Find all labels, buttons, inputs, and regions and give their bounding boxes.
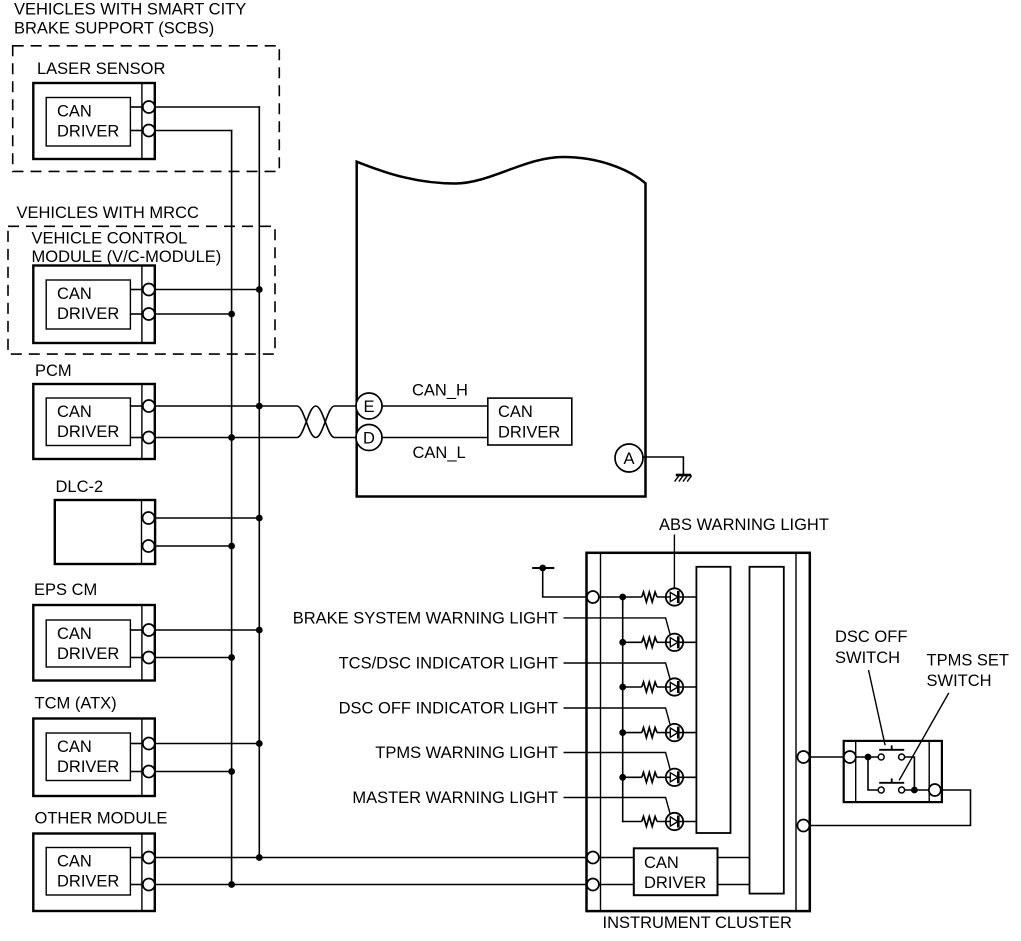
label DLC-2 [56, 478, 104, 496]
junction dot on CAN_L bus at y=884.5 [228, 881, 235, 888]
wire cluster pin to CAN driver (CAN_H) [599, 857, 634, 859]
svg-text:CAN: CAN [57, 625, 92, 643]
label vehicle control module [32, 230, 222, 267]
label EPS CM [34, 581, 97, 599]
svg-text:A: A [623, 450, 634, 468]
PCM pin CAN_L [143, 432, 155, 444]
svg-text:DRIVER: DRIVER [57, 305, 119, 323]
svg-text:DRIVER: DRIVER [57, 873, 119, 891]
wire lamp branch TPMS warning light [623, 776, 642, 778]
wire cluster CAN driver to lamp module (CAN_L) [718, 884, 750, 886]
wire TCM CAN_H to bus [155, 743, 259, 745]
svg-text:ABS WARNING LIGHT: ABS WARNING LIGHT [659, 516, 829, 534]
laser sensor pin CAN_H [143, 101, 155, 113]
svg-text:BRAKE SUPPORT (SCBS): BRAKE SUPPORT (SCBS) [14, 20, 214, 38]
wire other module CAN_L to instrument cluster [155, 884, 587, 886]
wire laser sensor CAN_L to bus [155, 130, 233, 132]
dashed box VEHICLES WITH MRCC [8, 226, 275, 354]
CAN_L bus (vertical) [231, 130, 233, 885]
svg-text:TPMS WARNING LIGHT: TPMS WARNING LIGHT [375, 744, 558, 762]
svg-text:CAN: CAN [57, 853, 92, 871]
cluster pin switch return [797, 820, 809, 832]
junction dot lamp branch TCS/DSC indicator light [619, 684, 626, 691]
TPMS SET switch contacts [878, 778, 904, 793]
switch pin input [844, 751, 856, 763]
svg-text:LASER SENSOR: LASER SENSOR [37, 60, 165, 78]
junction dot on CAN_L bus at y=437.5 [228, 434, 235, 441]
svg-text:VEHICLE CONTROL: VEHICLE CONTROL [32, 230, 188, 248]
junction dot lamp branch brake system warning light [619, 639, 626, 646]
svg-text:SWITCH: SWITCH [835, 649, 900, 667]
cluster pin power [587, 591, 599, 603]
DLC-2 pin CAN_H [143, 512, 155, 524]
label laser sensor [37, 60, 165, 78]
svg-text:PCM: PCM [35, 362, 72, 380]
TCM (ATX) CAN driver [46, 733, 143, 781]
label VEHICLES WITH SMART CITY BRAKE SUPPORT (SCBS) [14, 1, 246, 38]
junction dot on CAN_H bus at y=857.5 [256, 854, 263, 861]
connector pin E [356, 393, 382, 419]
vehicle control module pin CAN_H [143, 284, 155, 296]
svg-text:SWITCH: SWITCH [927, 672, 992, 690]
wire junction to TPMS switch [868, 757, 878, 790]
TCM (ATX) pin CAN_H [143, 738, 155, 750]
connector pin D [356, 425, 382, 451]
svg-text:DLC-2: DLC-2 [56, 478, 104, 496]
wire lamp branch DSC OFF indicator light [623, 732, 642, 734]
laser sensor module box [33, 83, 155, 159]
LED TCS/DSC indicator light [657, 678, 696, 695]
wire DLC-2 CAN_H to bus [155, 517, 259, 519]
PCM CAN driver [46, 398, 143, 446]
junction dot lamp branch ABS warning light [619, 594, 626, 601]
resistor brake system warning light [642, 637, 657, 647]
wire switch output return to cluster [809, 790, 970, 826]
TCM (ATX) module box [33, 719, 155, 797]
wire connector E to CAN driver (CAN_H) [369, 405, 488, 407]
leader line brake system warning light [564, 618, 673, 641]
wire lamp branch master warning light [622, 821, 642, 823]
wire connector A to ground [643, 457, 683, 475]
LED DSC OFF indicator light [657, 724, 696, 741]
wire TPMS switch to output pin [905, 789, 929, 791]
leader line TPMS SET switch [899, 693, 949, 781]
svg-text:BRAKE SYSTEM WARNING LIGHT: BRAKE SYSTEM WARNING LIGHT [293, 609, 558, 627]
leader line tcs/dsc indicator light [564, 663, 673, 686]
resistor TCS/DSC indicator light [642, 682, 657, 692]
svg-text:VEHICLES WITH SMART CITY: VEHICLES WITH SMART CITY [14, 1, 246, 19]
dashed box VEHICLES WITH SMART CITY BRAKE SUPPORT (SCBS) [13, 46, 280, 172]
DSC OFF switch contacts [878, 745, 904, 760]
instrument cluster box [587, 553, 810, 911]
wire cluster pin to CAN driver (CAN_L) [599, 884, 634, 886]
leader line tpms warning light [564, 753, 673, 777]
junction dot on CAN_L bus at y=546 [228, 543, 235, 550]
vehicle control module pin CAN_L [143, 308, 155, 320]
svg-text:MODULE (V/C-MODULE): MODULE (V/C-MODULE) [32, 248, 222, 266]
svg-text:D: D [363, 430, 375, 448]
wire DLC-2 CAN_L to bus [155, 545, 232, 547]
switch pin output [929, 784, 941, 796]
laser sensor pin CAN_L [143, 125, 155, 137]
twisted pair CAN_H strand [297, 406, 359, 438]
svg-text:OTHER MODULE: OTHER MODULE [35, 810, 168, 828]
cluster pin CAN_L [587, 879, 599, 891]
junction dot switch input [865, 754, 872, 761]
junction dot on CAN_H bus at y=630 [256, 627, 263, 634]
ground symbol [675, 475, 692, 482]
wire EPS CM CAN_H to bus [155, 629, 259, 631]
leader line ABS warning light [673, 535, 675, 594]
DSC HU/CM box (torn wavy top) [357, 157, 646, 497]
EPS CM module box [33, 605, 155, 681]
vehicle control module CAN driver [46, 280, 143, 329]
wire PCM CAN_H to connector E [155, 405, 297, 407]
resistor master warning light [642, 817, 657, 827]
leader line dsc off indicator light [564, 708, 673, 732]
junction dot on CAN_L bus at y=657.5 [228, 654, 235, 661]
LED TPMS warning light [657, 769, 696, 786]
svg-text:CAN: CAN [644, 854, 679, 872]
junction dot on CAN_H bus at y=289.5 [256, 286, 263, 293]
svg-text:CAN: CAN [57, 103, 92, 121]
EPS CM pin CAN_H [143, 624, 155, 636]
svg-text:DRIVER: DRIVER [644, 874, 706, 892]
svg-text:DRIVER: DRIVER [57, 645, 119, 663]
junction dot switch output [911, 787, 918, 794]
junction dot on CAN_L bus at y=314 [228, 311, 235, 318]
svg-text:CAN: CAN [498, 403, 533, 421]
label TPMS SET SWITCH [927, 652, 1010, 691]
connector pin A [615, 444, 643, 472]
junction dot lamp branch DSC OFF indicator light [619, 729, 626, 736]
twisted pair CAN_L strand [297, 406, 359, 438]
svg-text:CAN: CAN [57, 738, 92, 756]
wire laser sensor CAN_H to bus [155, 106, 260, 108]
wire EPS CM CAN_L to bus [155, 657, 232, 659]
TCM (ATX) pin CAN_L [143, 766, 155, 778]
label other module [35, 810, 168, 828]
svg-text:DRIVER: DRIVER [57, 423, 119, 441]
junction dot on CAN_H bus at y=743.5 [256, 740, 263, 747]
wire TCM CAN_L to bus [155, 771, 232, 773]
svg-text:TCM (ATX): TCM (ATX) [35, 695, 117, 713]
wire connector D to CAN driver (CAN_L) [369, 437, 488, 439]
junction dot lamp branch TPMS warning light [619, 774, 626, 781]
CAN_H bus (vertical) [258, 106, 260, 857]
wire lamp branch brake system warning light [623, 641, 642, 643]
other module pin CAN_H [143, 852, 155, 864]
wire PCM CAN_L to connector D [155, 437, 297, 439]
wire cluster CAN driver to lamp module (CAN_H) [718, 857, 750, 859]
cluster pin CAN_H [587, 852, 599, 864]
LED ABS warning light [657, 588, 696, 605]
wire vehicle control CAN_L to bus [155, 313, 232, 315]
wire switch pin to DSC OFF switch [856, 756, 878, 758]
label PCM [35, 362, 72, 380]
PCM module box [33, 384, 155, 459]
DLC-2 module box [55, 500, 155, 564]
wire other module CAN_H to instrument cluster [155, 857, 587, 859]
svg-text:VEHICLES WITH MRCC: VEHICLES WITH MRCC [17, 204, 200, 222]
label TCM (ATX) [35, 695, 117, 713]
wire lamp branch ABS warning light [599, 596, 642, 598]
svg-text:DRIVER: DRIVER [498, 424, 560, 442]
svg-text:EPS CM: EPS CM [34, 581, 97, 599]
cluster lamp feed bus (vertical) [622, 597, 624, 822]
svg-text:DRIVER: DRIVER [57, 758, 119, 776]
junction dot on CAN_H bus at y=406 [256, 403, 263, 410]
svg-text:MASTER WARNING LIGHT: MASTER WARNING LIGHT [352, 789, 558, 807]
wire power feed to cluster pin [543, 568, 587, 597]
svg-text:DRIVER: DRIVER [57, 123, 119, 141]
svg-text:CAN: CAN [57, 285, 92, 303]
svg-text:DSC OFF: DSC OFF [835, 628, 907, 646]
leader line DSC OFF switch [869, 670, 886, 745]
resistor ABS warning light [642, 592, 657, 602]
svg-text:E: E [363, 398, 374, 416]
wire lamp branch TCS/DSC indicator light [623, 686, 642, 688]
label DSC OFF SWITCH [835, 628, 907, 667]
vehicle control module module box [33, 266, 155, 344]
LED master warning light [657, 813, 696, 830]
svg-text:INSTRUMENT CLUSTER: INSTRUMENT CLUSTER [603, 914, 793, 932]
lamp module bar 2 [750, 567, 784, 894]
EPS CM CAN driver [46, 620, 143, 667]
resistor TPMS warning light [642, 772, 657, 782]
leader line master warning light [564, 798, 673, 821]
wire vehicle control CAN_H to bus [155, 289, 259, 291]
svg-text:TCS/DSC INDICATOR LIGHT: TCS/DSC INDICATOR LIGHT [339, 655, 558, 673]
switch module box [844, 741, 942, 802]
junction dot on CAN_H bus at y=518 [256, 515, 263, 522]
svg-text:CAN_L: CAN_L [413, 444, 466, 462]
junction dot on CAN_L bus at y=771.5 [228, 768, 235, 775]
svg-text:DSC OFF INDICATOR LIGHT: DSC OFF INDICATOR LIGHT [339, 700, 558, 718]
other module CAN driver [46, 848, 143, 896]
cluster pin to DSC OFF switch [797, 751, 809, 763]
svg-text:TPMS SET: TPMS SET [927, 652, 1010, 670]
svg-text:CAN: CAN [57, 403, 92, 421]
LED brake system warning light [657, 634, 696, 651]
laser sensor CAN driver [46, 98, 143, 147]
power feed stub [532, 565, 554, 572]
other module pin CAN_L [143, 879, 155, 891]
resistor DSC OFF indicator light [642, 728, 657, 738]
DLC-2 pin CAN_L [143, 540, 155, 552]
wire DSC OFF switch to output junction [905, 757, 915, 790]
EPS CM pin CAN_L [143, 652, 155, 664]
other module module box [33, 834, 155, 912]
svg-text:CAN_H: CAN_H [412, 382, 468, 400]
cluster CAN driver [634, 848, 718, 895]
PCM pin CAN_H [143, 400, 155, 412]
wire cluster to switch box [809, 756, 843, 758]
lamp module bar 1 [696, 567, 730, 833]
DSC HU/CM CAN driver [488, 398, 572, 445]
